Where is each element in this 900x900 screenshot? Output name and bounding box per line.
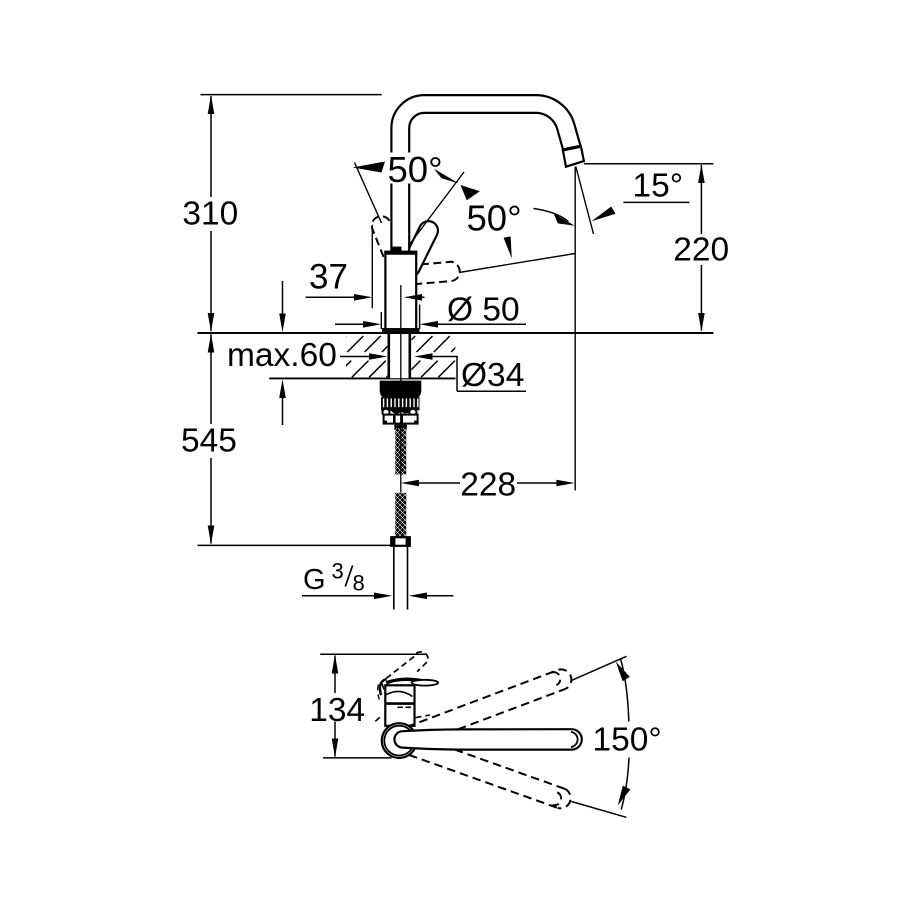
mounting nut cup bbox=[380, 381, 422, 399]
svg-text:15°: 15° bbox=[633, 167, 684, 204]
leader max.60 to shank bbox=[340, 353, 387, 360]
svg-text:50°: 50° bbox=[388, 149, 443, 190]
svg-text:3: 3 bbox=[332, 559, 344, 584]
vertical reference line from spout tip bbox=[574, 167, 576, 491]
right lever axis line bbox=[459, 254, 575, 273]
svg-text:max.60: max.60 bbox=[227, 337, 337, 374]
svg-text:G: G bbox=[303, 564, 326, 596]
svg-text:545: 545 bbox=[181, 423, 237, 460]
dimension 545 vertical line bbox=[181, 334, 238, 545]
down arrow on right lever axis bbox=[504, 236, 512, 258]
top view spout capsule bbox=[394, 729, 581, 749]
leader O34 bbox=[414, 353, 526, 391]
svg-text:220: 220 bbox=[673, 232, 729, 269]
base flange bbox=[382, 328, 420, 333]
wire top extension line bbox=[201, 94, 382, 96]
wire bottom extension line 134 bbox=[323, 757, 392, 759]
countertop bottom line bbox=[269, 377, 455, 379]
thread stripe band bbox=[381, 397, 420, 410]
scallops under nut bbox=[389, 408, 411, 414]
handle end oval bbox=[412, 680, 438, 686]
countertop hatching bbox=[330, 336, 472, 377]
dimension G3/8 arrows bbox=[302, 593, 454, 600]
lever handle solid upright position bbox=[401, 221, 438, 276]
wire bottom extension line of 545 bbox=[198, 544, 392, 546]
svg-text:150°: 150° bbox=[593, 722, 662, 759]
wire top extension line 134 bbox=[320, 653, 427, 655]
countertop top line bbox=[198, 332, 714, 334]
svg-text:8: 8 bbox=[353, 571, 365, 596]
svg-text:134: 134 bbox=[309, 692, 365, 729]
body centerline bbox=[400, 285, 402, 492]
svg-text:228: 228 bbox=[460, 467, 516, 504]
braided hose upper bbox=[395, 428, 406, 474]
wire spout tip extension line bbox=[584, 163, 713, 165]
arc arrowheads bbox=[616, 662, 630, 682]
dimension max.60 bbox=[279, 281, 286, 425]
svg-text:310: 310 bbox=[182, 196, 238, 233]
dimension 134 vertical bbox=[332, 655, 339, 758]
dashed spout hidden edge dashes bbox=[375, 715, 430, 721]
dimension 310 vertical line bbox=[183, 95, 238, 332]
label 15 deg with leader bbox=[592, 202, 690, 221]
mounting washers circles bbox=[382, 409, 416, 416]
svg-text:50°: 50° bbox=[467, 198, 522, 239]
label G 3/8 bbox=[303, 559, 365, 597]
lever handle dashed left position bbox=[372, 216, 406, 268]
top view dashed handle bbox=[382, 652, 429, 696]
tangent line upper bbox=[572, 656, 627, 680]
mounting bracket bbox=[384, 415, 418, 424]
150 deg arc bbox=[621, 659, 629, 810]
hose stub bbox=[394, 424, 406, 430]
hose end fitting bbox=[391, 537, 410, 546]
top view handle black band bbox=[386, 678, 425, 685]
leader line to left lever axis bbox=[353, 162, 386, 224]
handle left wrap bbox=[380, 679, 386, 695]
aerator spout tip bbox=[563, 146, 584, 167]
arc from 50 deg to vertical line bbox=[534, 209, 575, 226]
svg-text:Ø34: Ø34 bbox=[461, 357, 524, 394]
slanted 15 deg line bbox=[576, 167, 594, 235]
dimension 37 bbox=[306, 225, 425, 308]
dimension 220 vertical bbox=[673, 164, 730, 331]
top view body bbox=[385, 685, 414, 726]
label 50 deg first bbox=[384, 149, 446, 190]
dimension 228 bbox=[401, 480, 575, 487]
faucet body bbox=[384, 247, 417, 330]
braided hose lower bbox=[395, 493, 406, 537]
svg-text:Ø 50: Ø 50 bbox=[447, 292, 520, 329]
svg-text:37: 37 bbox=[309, 258, 348, 297]
G3/8 tube bbox=[394, 547, 408, 610]
swivel joint circles bbox=[382, 723, 417, 758]
spout tube bbox=[400, 104, 572, 253]
tangent line lower bbox=[572, 802, 627, 818]
top view dashed spout lower bbox=[409, 750, 571, 809]
shank through counter bbox=[389, 334, 410, 378]
dimension O50 bbox=[335, 305, 526, 330]
leader line solid lever axis with double arrowheads bbox=[410, 169, 480, 245]
lever handle dashed right position bbox=[414, 262, 459, 284]
top view dashed spout upper bbox=[407, 669, 572, 729]
